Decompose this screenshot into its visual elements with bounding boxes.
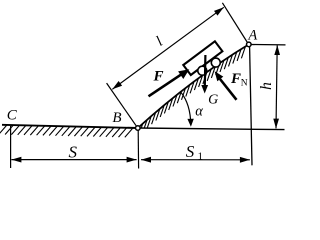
extension line below B: [137, 131, 139, 169]
dimension line l with arrows: [112, 7, 224, 89]
node B circle: [136, 126, 141, 131]
svg-text:α: α: [195, 104, 203, 120]
svg-text:1: 1: [198, 151, 204, 163]
extension line from A for l: [222, 3, 247, 43]
svg-text:C: C: [7, 108, 18, 124]
gravity G arrow: [204, 55, 207, 87]
dimension line S1 with arrows: [141, 159, 250, 161]
svg-text:l: l: [153, 34, 165, 50]
svg-text:F: F: [152, 69, 163, 85]
svg-text:F: F: [230, 71, 241, 87]
node A circle: [247, 42, 252, 47]
wire incline-surface BA: [138, 44, 249, 128]
extension line from B for l: [107, 83, 137, 126]
wire top horizontal from A: [251, 44, 285, 46]
svg-text:S: S: [186, 142, 195, 161]
dimension h line with arrows: [276, 45, 277, 128]
force F arrow: [149, 74, 183, 96]
svg-text:S: S: [68, 143, 77, 162]
svg-text:B: B: [112, 110, 121, 126]
wire ground-surface-line: [2, 125, 138, 128]
ground hatching: [0, 125, 133, 137]
dimension line S with arrows: [11, 159, 136, 161]
normal force FN arrow: [220, 79, 237, 100]
incline hatching: [141, 47, 245, 128]
svg-text:N: N: [241, 79, 248, 89]
svg-text:G: G: [208, 93, 218, 108]
angle alpha arc: [181, 92, 191, 125]
svg-text:A: A: [247, 27, 257, 43]
wheel 2: [211, 58, 220, 67]
cart body (block on incline): [183, 41, 222, 75]
extension line below C: [10, 126, 12, 168]
svg-text:h: h: [258, 82, 275, 90]
extension line below A: [250, 47, 252, 165]
wheel 1: [198, 66, 207, 75]
